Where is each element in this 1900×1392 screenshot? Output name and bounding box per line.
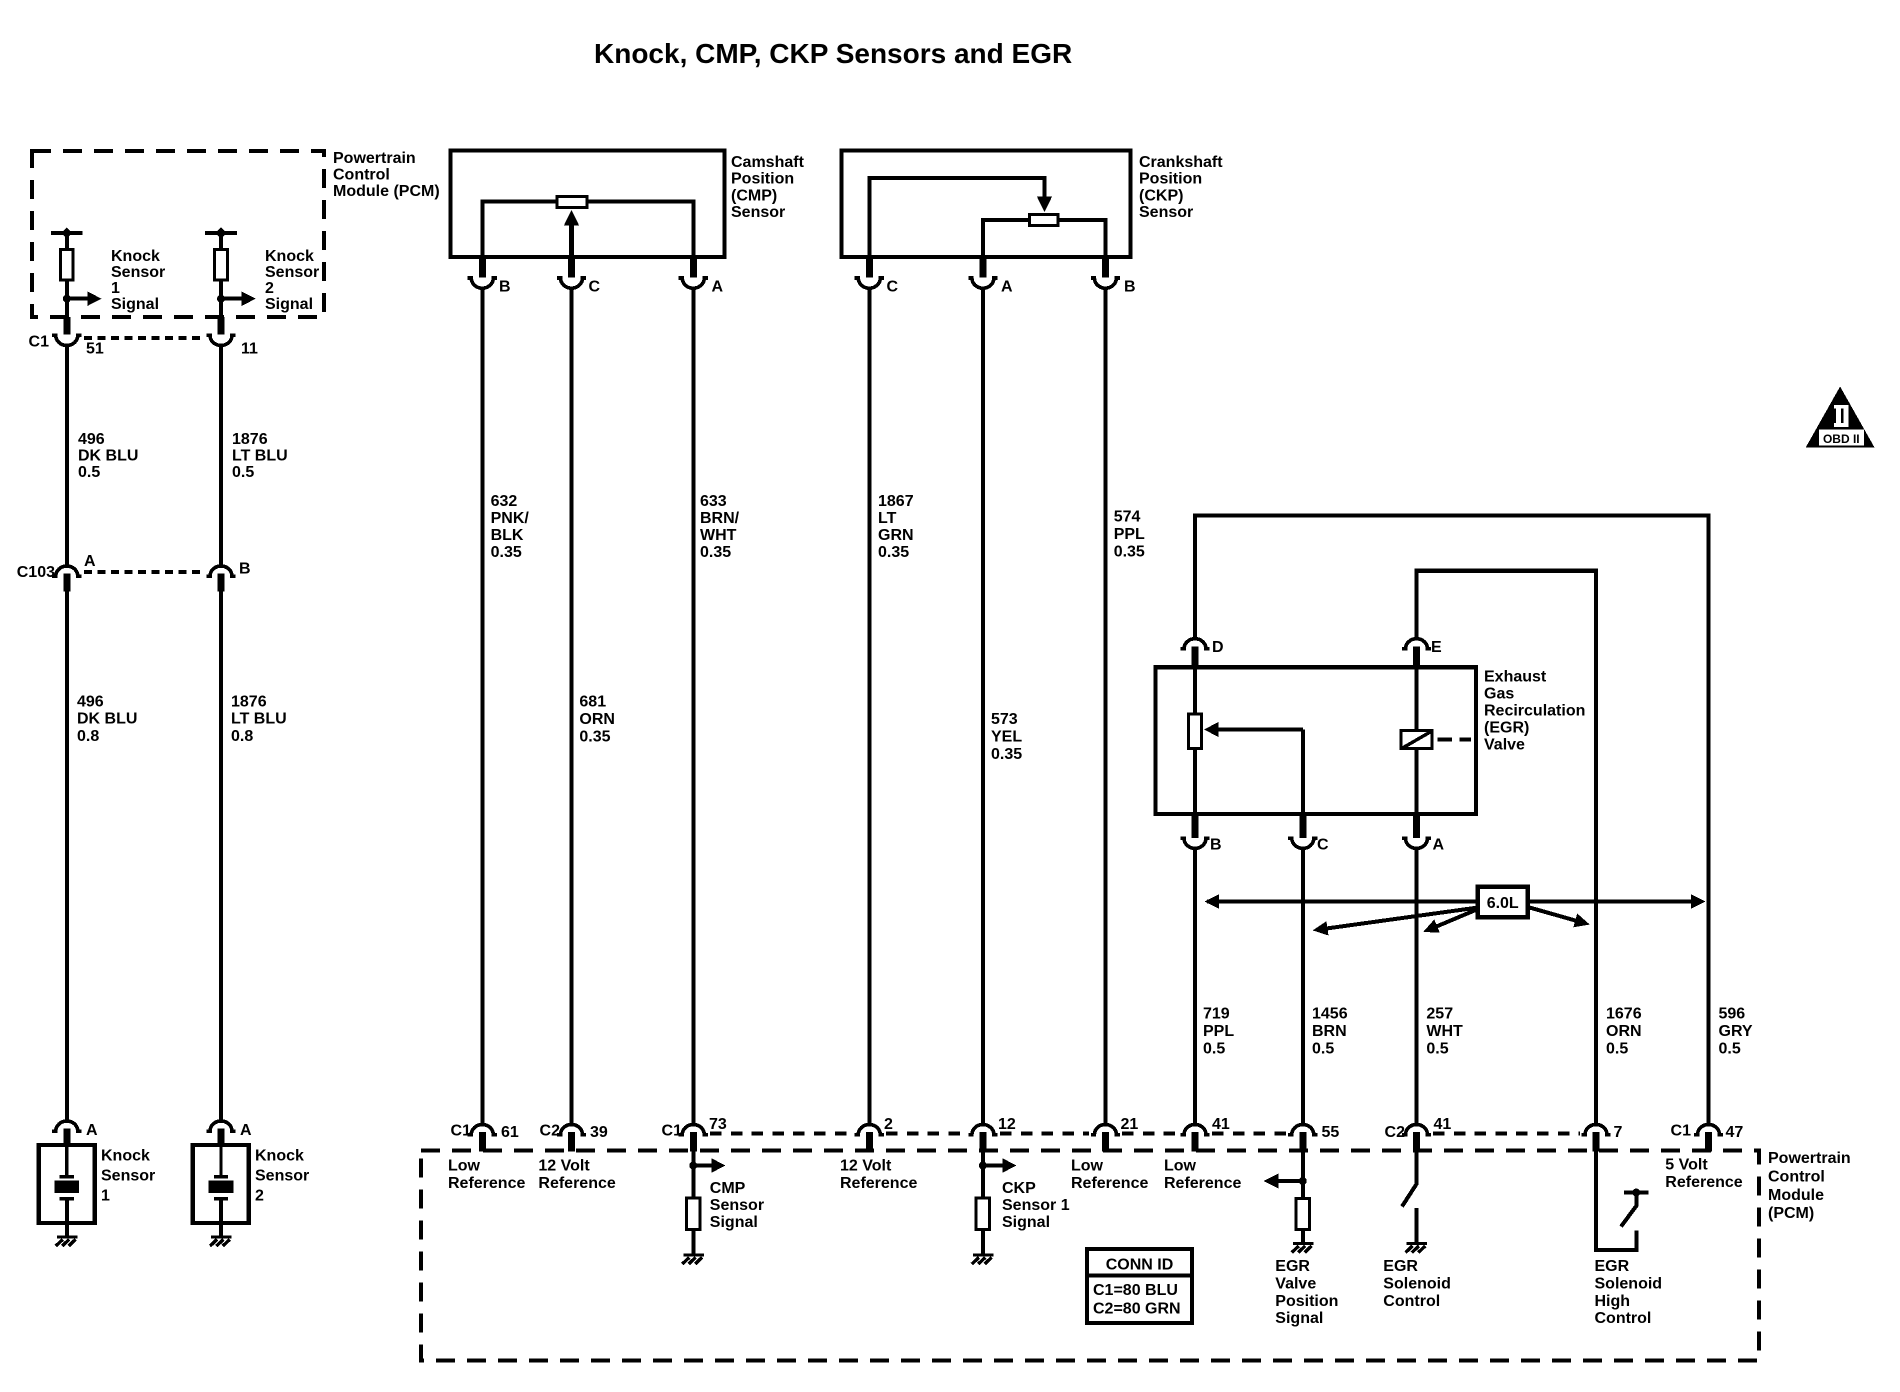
- svg-text:51: 51: [86, 341, 104, 358]
- svg-text:0.35: 0.35: [991, 746, 1022, 763]
- ground CMP signal: [682, 1255, 704, 1264]
- svg-text:BRN: BRN: [1312, 1023, 1347, 1040]
- connector EGR pin A: [1402, 838, 1431, 848]
- svg-text:47: 47: [1726, 1124, 1744, 1141]
- svg-text:C103: C103: [17, 564, 55, 581]
- svg-text:CKP: CKP: [1002, 1180, 1036, 1197]
- svg-text:Camshaft: Camshaft: [731, 154, 805, 171]
- svg-text:OBD II: OBD II: [1823, 432, 1860, 446]
- svg-text:Sensor: Sensor: [1139, 204, 1193, 221]
- svg-text:496: 496: [77, 694, 104, 711]
- svg-text:PPL: PPL: [1114, 526, 1145, 543]
- svg-text:YEL: YEL: [991, 729, 1022, 746]
- svg-text:Low: Low: [448, 1157, 481, 1174]
- svg-text:596: 596: [1719, 1006, 1746, 1023]
- svg-text:496: 496: [78, 431, 105, 448]
- svg-text:Position: Position: [731, 171, 794, 188]
- svg-text:C1: C1: [1671, 1123, 1692, 1140]
- svg-text:257: 257: [1426, 1006, 1453, 1023]
- piezo element knock sensor 1: [65, 1146, 68, 1177]
- connector EGR pin C stub: [1299, 813, 1306, 838]
- svg-text:11: 11: [241, 341, 258, 358]
- connector pin 11 stub: [218, 317, 225, 335]
- svg-text:C1=80 BLU: C1=80 BLU: [1093, 1282, 1178, 1299]
- knock sensor 2 box: [193, 1145, 249, 1223]
- wire 1867 LT GRN 0.35: [867, 287, 871, 1124]
- connector pin 55: [1288, 1125, 1317, 1135]
- svg-text:0.35: 0.35: [491, 544, 522, 561]
- svg-text:2: 2: [265, 280, 274, 297]
- svg-text:Control: Control: [1383, 1293, 1440, 1310]
- EGR solenoid coil: [1401, 731, 1432, 749]
- 6.0L range arrow: [1207, 900, 1693, 904]
- svg-text:LT: LT: [878, 510, 897, 527]
- svg-text:73: 73: [709, 1116, 727, 1133]
- switch blade EGR solenoid control: [1402, 1184, 1417, 1207]
- connector EGR pin E: [1402, 639, 1431, 649]
- connector CKP pin C stub: [866, 256, 873, 278]
- wire: [219, 233, 223, 249]
- resistor knock sensor 1 signal: [61, 250, 74, 280]
- svg-text:A: A: [1001, 279, 1013, 296]
- EGR solenoid high control wire: [1596, 1152, 1637, 1251]
- wire 633 BRN/WHT 0.35: [691, 287, 695, 1124]
- connector EGR pin B stub: [1192, 813, 1199, 838]
- ground EGR position signal: [1292, 1244, 1314, 1253]
- svg-text:41: 41: [1434, 1116, 1452, 1133]
- svg-text:12: 12: [998, 1116, 1016, 1133]
- junction dot 12: [979, 1162, 987, 1170]
- svg-text:Sensor: Sensor: [101, 1167, 155, 1184]
- svg-text:(PCM): (PCM): [1768, 1205, 1814, 1222]
- connector knock sensor 2 pin A: [206, 1121, 235, 1131]
- connector C103 pin A: [52, 566, 81, 576]
- connector bus dashes: [710, 1131, 853, 1135]
- svg-text:E: E: [1431, 639, 1442, 656]
- svg-text:Reference: Reference: [1665, 1174, 1742, 1191]
- CMP sensor box: [451, 151, 725, 258]
- node diamond knock 2: [216, 227, 227, 238]
- junction dot knock 1: [63, 295, 71, 303]
- svg-text:Low: Low: [1071, 1157, 1104, 1174]
- svg-text:Sensor: Sensor: [111, 264, 165, 281]
- svg-text:Sensor: Sensor: [710, 1197, 764, 1214]
- svg-text:Module (PCM): Module (PCM): [333, 183, 440, 200]
- svg-text:EGR: EGR: [1595, 1258, 1630, 1275]
- svg-text:12 Volt: 12 Volt: [538, 1157, 590, 1174]
- knock sensor 2 pullup bar: [205, 231, 237, 235]
- connector C1 pin 73: [679, 1125, 708, 1135]
- svg-text:719: 719: [1203, 1006, 1230, 1023]
- svg-text:C2=80 GRN: C2=80 GRN: [1093, 1300, 1181, 1317]
- svg-text:BLK: BLK: [491, 527, 524, 544]
- svg-text:(EGR): (EGR): [1484, 720, 1529, 737]
- svg-text:(CMP): (CMP): [731, 188, 777, 205]
- ground EGR solenoid control: [1406, 1244, 1428, 1253]
- svg-text:C: C: [1317, 837, 1329, 854]
- svg-text:D: D: [1212, 639, 1224, 656]
- connector CKP pin B: [1091, 278, 1120, 288]
- svg-text:Signal: Signal: [265, 296, 313, 313]
- svg-text:1: 1: [111, 280, 120, 297]
- svg-text:EGR: EGR: [1275, 1258, 1310, 1275]
- svg-text:39: 39: [590, 1124, 608, 1141]
- svg-text:12 Volt: 12 Volt: [840, 1157, 892, 1174]
- svg-text:DK BLU: DK BLU: [77, 711, 137, 728]
- svg-text:Signal: Signal: [710, 1214, 758, 1231]
- connector pin 12: [968, 1125, 997, 1135]
- svg-text:Signal: Signal: [1002, 1214, 1050, 1231]
- resistor EGR position signal: [1296, 1199, 1309, 1230]
- ground knock sensor 1: [56, 1237, 78, 1246]
- svg-text:C: C: [887, 279, 899, 296]
- node diamond knock 1: [61, 227, 72, 238]
- svg-text:Signal: Signal: [111, 296, 159, 313]
- svg-text:1876: 1876: [232, 431, 268, 448]
- svg-text:Knock: Knock: [111, 248, 160, 265]
- svg-text:2: 2: [884, 1116, 893, 1133]
- svg-text:B: B: [1124, 279, 1136, 296]
- wire 1876 LT BLU 0.5: [219, 344, 223, 565]
- svg-text:PPL: PPL: [1203, 1023, 1234, 1040]
- svg-text:Recirculation: Recirculation: [1484, 703, 1585, 720]
- svg-text:5 Volt: 5 Volt: [1665, 1156, 1708, 1173]
- wire 573 YEL 0.35: [981, 287, 985, 1124]
- svg-text:Reference: Reference: [1071, 1175, 1148, 1192]
- svg-text:ORN: ORN: [579, 711, 615, 728]
- connector link dashes C103: [84, 570, 203, 574]
- connector pin 41: [1180, 1125, 1209, 1135]
- 6.0L arrow to 257 WHT: [1436, 909, 1478, 927]
- svg-text:Reference: Reference: [840, 1175, 917, 1192]
- svg-text:0.5: 0.5: [1719, 1041, 1741, 1058]
- knock sensor 1 pullup bar: [51, 231, 83, 235]
- 6.0L box: [1478, 887, 1528, 917]
- CKP wiper arrow down: [1037, 197, 1052, 213]
- svg-text:DK BLU: DK BLU: [78, 448, 138, 465]
- 6.0L arrow to 1676 ORN: [1528, 907, 1577, 921]
- connector C1 pin 51 stub: [63, 317, 70, 335]
- ground CKP signal: [972, 1255, 994, 1264]
- svg-text:Signal: Signal: [1275, 1310, 1323, 1327]
- resistor CMP signal: [687, 1198, 700, 1230]
- arrow knock sensor 2 signal: [221, 297, 243, 301]
- CKP element resistor: [1030, 215, 1058, 226]
- OBD II symbol: [1806, 387, 1875, 448]
- PCM (bottom) dashed box: [421, 1151, 1759, 1361]
- svg-text:Reference: Reference: [1164, 1175, 1241, 1192]
- svg-text:WHT: WHT: [1426, 1023, 1463, 1040]
- wire: [65, 233, 69, 249]
- svg-text:Knock: Knock: [101, 1148, 150, 1165]
- svg-text:0.35: 0.35: [878, 544, 909, 561]
- connector CMP pin B: [468, 278, 497, 288]
- svg-text:Exhaust: Exhaust: [1484, 669, 1547, 686]
- svg-text:BRN/: BRN/: [700, 510, 740, 527]
- connector C2 pin 39: [557, 1125, 586, 1135]
- svg-text:Control: Control: [1768, 1169, 1825, 1186]
- svg-text:573: 573: [991, 711, 1018, 728]
- connector EGR pin D: [1180, 639, 1209, 649]
- wire 496 DK BLU 0.8: [65, 592, 69, 1121]
- connector EGR pin B: [1180, 838, 1209, 848]
- svg-text:Sensor: Sensor: [255, 1167, 309, 1184]
- svg-text:55: 55: [1322, 1124, 1340, 1141]
- wire 1876 LT BLU 0.8: [219, 592, 223, 1121]
- switch blade EGR solenoid high control: [1621, 1205, 1637, 1227]
- svg-text:Reference: Reference: [448, 1175, 525, 1192]
- connector CKP pin B stub: [1102, 256, 1109, 278]
- connector CKP pin A stub: [979, 256, 986, 278]
- PCM (top-left) dashed box: [32, 151, 324, 317]
- piezo element knock sensor 2: [219, 1146, 222, 1177]
- svg-text:Sensor 1: Sensor 1: [1002, 1197, 1070, 1214]
- svg-text:574: 574: [1114, 509, 1141, 526]
- svg-text:0.5: 0.5: [1426, 1041, 1448, 1058]
- svg-text:632: 632: [491, 493, 518, 510]
- arrow CKP sensor signal: [983, 1164, 1004, 1168]
- connector pin 11: [206, 335, 235, 345]
- wire 1456 BRN 0.5: [1301, 847, 1305, 1124]
- wire to ground: [1301, 1231, 1305, 1244]
- CKP internal wire upper: [869, 178, 1044, 257]
- wire 257 WHT 0.5: [1415, 847, 1419, 1124]
- connector knock sensor 1 pin A: [52, 1121, 81, 1131]
- svg-text:C1: C1: [29, 334, 50, 351]
- svg-text:A: A: [84, 553, 96, 570]
- svg-text:61: 61: [501, 1124, 519, 1141]
- svg-text:0.5: 0.5: [1606, 1041, 1628, 1058]
- CMP wiper arrow: [569, 224, 574, 257]
- svg-text:GRN: GRN: [878, 527, 914, 544]
- svg-text:C1: C1: [662, 1123, 683, 1140]
- CMP sensor signal wire: [691, 1152, 695, 1198]
- svg-text:Knock: Knock: [255, 1148, 304, 1165]
- svg-text:1456: 1456: [1312, 1006, 1348, 1023]
- wire 496 DK BLU 0.5: [65, 344, 69, 565]
- arrow EGR valve position signal: [1278, 1179, 1303, 1183]
- svg-text:2: 2: [255, 1187, 264, 1204]
- svg-text:0.35: 0.35: [700, 544, 731, 561]
- svg-text:B: B: [1210, 837, 1222, 854]
- svg-text:C2: C2: [540, 1123, 561, 1140]
- svg-text:0.8: 0.8: [231, 728, 253, 745]
- svg-text:Powertrain: Powertrain: [333, 150, 416, 167]
- svg-text:681: 681: [579, 694, 606, 711]
- wire: [219, 282, 223, 318]
- EGR solenoid control wire: [1415, 1152, 1419, 1186]
- connector C1 pin 47: [1694, 1125, 1723, 1135]
- svg-text:Solenoid: Solenoid: [1383, 1275, 1451, 1292]
- EGR valve box: [1156, 667, 1477, 814]
- svg-text:Gas: Gas: [1484, 686, 1514, 703]
- svg-text:EGR: EGR: [1383, 1258, 1418, 1275]
- connector CMP pin C: [557, 278, 586, 288]
- svg-text:0.5: 0.5: [232, 464, 254, 481]
- svg-text:Valve: Valve: [1484, 737, 1525, 754]
- knock sensor 1 box: [39, 1145, 95, 1223]
- EGR position resistor: [1188, 714, 1201, 749]
- 6.0L arrow to 1456 BRN: [1325, 908, 1478, 929]
- svg-text:0.5: 0.5: [1312, 1041, 1334, 1058]
- svg-text:LT BLU: LT BLU: [232, 448, 288, 465]
- wire 719 PPL 0.5: [1193, 847, 1197, 1124]
- svg-text:B: B: [239, 561, 251, 578]
- EGR position sense wire: [1193, 667, 1197, 814]
- svg-text:1: 1: [101, 1187, 110, 1204]
- wire 681 ORN 0.35: [570, 287, 574, 1124]
- connector CMP pin A stub: [690, 256, 697, 278]
- svg-text:0.5: 0.5: [1203, 1041, 1225, 1058]
- connector CKP pin A: [968, 278, 997, 288]
- solenoid linkage dashes: [1437, 738, 1452, 742]
- svg-text:Knock, CMP, CKP Sensors and EG: Knock, CMP, CKP Sensors and EGR: [594, 38, 1072, 69]
- CKP sensor box: [842, 151, 1131, 258]
- junction dot 73: [689, 1162, 697, 1170]
- EGR solenoid wire: [1415, 667, 1419, 814]
- svg-text:Position: Position: [1139, 171, 1202, 188]
- svg-text:21: 21: [1121, 1116, 1139, 1133]
- CMP element resistor: [557, 196, 587, 207]
- svg-text:633: 633: [700, 493, 727, 510]
- wire: [65, 282, 69, 318]
- svg-text:1876: 1876: [231, 694, 267, 711]
- svg-text:Sensor: Sensor: [265, 264, 319, 281]
- svg-text:Position: Position: [1275, 1293, 1338, 1310]
- ground knock sensor 2: [210, 1237, 232, 1246]
- CMP internal wire: [482, 201, 693, 257]
- EGR wiper arrow: [1217, 728, 1303, 732]
- svg-text:PNK/: PNK/: [491, 510, 530, 527]
- svg-text:WHT: WHT: [700, 527, 737, 544]
- svg-text:1867: 1867: [878, 493, 914, 510]
- svg-text:Low: Low: [1164, 1157, 1197, 1174]
- svg-text:High: High: [1595, 1293, 1631, 1310]
- arrow knock sensor 1 signal: [67, 297, 89, 301]
- svg-text:7: 7: [1614, 1124, 1623, 1141]
- EGR pin C internal wire: [1301, 730, 1305, 815]
- connector CMP pin B stub: [479, 256, 486, 278]
- svg-text:Control: Control: [333, 167, 390, 184]
- CKP internal wire lower: [983, 220, 1106, 257]
- svg-text:0.35: 0.35: [579, 729, 610, 746]
- connector C1 pin 51: [52, 335, 81, 345]
- svg-text:A: A: [86, 1122, 98, 1139]
- svg-text:Valve: Valve: [1275, 1275, 1316, 1292]
- wire 574 PPL 0.35: [1103, 287, 1107, 1124]
- connector C2 pin 41: [1402, 1125, 1431, 1135]
- svg-text:C1: C1: [451, 1123, 472, 1140]
- svg-text:GRY: GRY: [1719, 1023, 1753, 1040]
- svg-text:A: A: [240, 1122, 252, 1139]
- svg-text:0.5: 0.5: [78, 464, 100, 481]
- svg-text:LT BLU: LT BLU: [231, 711, 287, 728]
- svg-text:(CKP): (CKP): [1139, 188, 1183, 205]
- wire 632 PNK/BLK 0.35: [480, 287, 484, 1124]
- svg-text:C: C: [589, 279, 601, 296]
- svg-text:0.35: 0.35: [1114, 544, 1145, 561]
- svg-text:B: B: [499, 279, 511, 296]
- junction dot 55: [1299, 1177, 1307, 1185]
- wire loop 596 GRY (D to pin 47): [1195, 516, 1709, 1125]
- svg-text:0.8: 0.8: [77, 728, 99, 745]
- wire to ground: [981, 1231, 985, 1255]
- connector pin 7: [1581, 1125, 1610, 1135]
- junction dot knock 2: [217, 295, 225, 303]
- connector C103 pin B: [206, 566, 235, 576]
- svg-text:41: 41: [1212, 1116, 1230, 1133]
- svg-text:ORN: ORN: [1606, 1023, 1642, 1040]
- lower wire to ground: [1415, 1208, 1419, 1244]
- connector CMP pin C stub: [568, 256, 575, 278]
- connector CMP pin A: [679, 278, 708, 288]
- connector CKP pin C: [855, 278, 884, 288]
- svg-text:Module: Module: [1768, 1187, 1824, 1204]
- svg-text:Sensor: Sensor: [731, 204, 785, 221]
- connector EGR pin A stub: [1413, 813, 1420, 838]
- connector pin 21: [1091, 1125, 1120, 1135]
- svg-text:Solenoid: Solenoid: [1595, 1275, 1663, 1292]
- arrow CMP sensor signal: [693, 1164, 712, 1168]
- wire to ground: [691, 1231, 695, 1255]
- resistor CKP signal: [976, 1198, 989, 1230]
- connector C1 pin 61: [468, 1125, 497, 1135]
- svg-text:6.0L: 6.0L: [1487, 895, 1519, 912]
- svg-text:CONN ID: CONN ID: [1106, 1257, 1174, 1274]
- svg-text:A: A: [712, 279, 724, 296]
- CKP sensor 1 signal wire: [981, 1152, 985, 1198]
- svg-text:Control: Control: [1595, 1310, 1652, 1327]
- connector pin 2: [855, 1125, 884, 1135]
- svg-text:Crankshaft: Crankshaft: [1139, 154, 1223, 171]
- connector EGR pin C: [1288, 838, 1317, 848]
- CONN ID table: [1087, 1249, 1192, 1323]
- EGR valve position signal wire: [1301, 1152, 1305, 1198]
- svg-text:Reference: Reference: [538, 1175, 615, 1192]
- wire loop 1676 ORN (E to pin 7): [1417, 571, 1597, 1124]
- svg-text:Knock: Knock: [265, 248, 314, 265]
- svg-text:C2: C2: [1385, 1124, 1406, 1141]
- svg-text:CMP: CMP: [710, 1180, 746, 1197]
- resistor knock sensor 2 signal: [215, 250, 228, 280]
- svg-text:Powertrain: Powertrain: [1768, 1150, 1851, 1167]
- svg-text:A: A: [1433, 837, 1445, 854]
- svg-text:1676: 1676: [1606, 1006, 1642, 1023]
- connector link dashes: [84, 336, 203, 340]
